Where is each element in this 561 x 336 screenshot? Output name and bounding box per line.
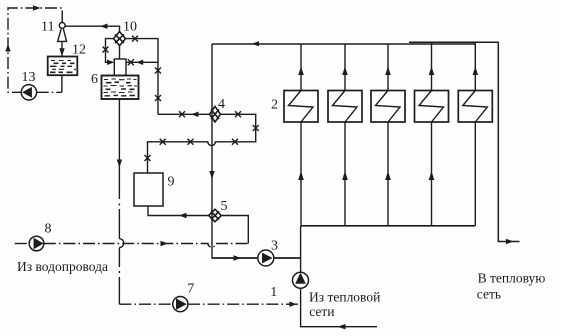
- svg-text:сеть: сеть: [477, 286, 501, 301]
- svg-text:8: 8: [45, 222, 52, 237]
- svg-text:7: 7: [187, 282, 194, 297]
- svg-text:Из водопровода: Из водопровода: [17, 259, 108, 274]
- svg-text:13: 13: [22, 70, 36, 85]
- svg-text:6: 6: [91, 72, 98, 87]
- svg-text:9: 9: [168, 175, 175, 190]
- svg-text:2: 2: [271, 98, 278, 113]
- svg-text:5: 5: [221, 199, 228, 214]
- svg-text:10: 10: [123, 20, 137, 35]
- svg-text:1: 1: [270, 285, 277, 300]
- svg-text:11: 11: [41, 20, 54, 35]
- svg-text:Из тепловой: Из тепловой: [309, 290, 380, 305]
- svg-text:12: 12: [72, 43, 86, 58]
- svg-text:сети: сети: [309, 304, 334, 319]
- svg-text:В тепловую: В тепловую: [478, 271, 546, 286]
- svg-text:3: 3: [271, 239, 278, 254]
- svg-text:4: 4: [218, 97, 225, 112]
